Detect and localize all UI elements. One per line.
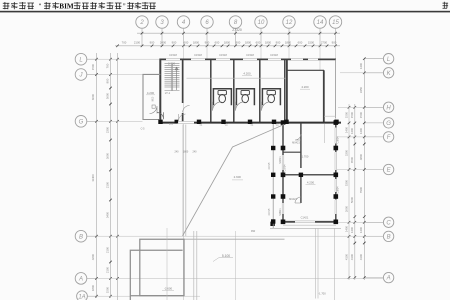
grid bubble 14 (top)	[314, 16, 326, 28]
svg-text:900: 900	[332, 41, 337, 45]
svg-text:2400: 2400	[160, 41, 167, 45]
svg-text:1800: 1800	[193, 41, 200, 45]
big room right wall	[323, 70, 325, 122]
grid leader 14	[319, 28, 321, 46]
svg-text:C0715: C0715	[269, 208, 271, 215]
bathroom walls unit right of partition 259.8	[262, 89, 280, 105]
grid leader 3	[161, 28, 163, 46]
unit door arc from partition	[262, 102, 271, 111]
veranda line west of wing	[272, 124, 274, 228]
column Z2 at (286.5,G)	[284, 120, 288, 124]
svg-text:3300: 3300	[345, 149, 349, 156]
svg-text:4.200: 4.200	[301, 85, 309, 89]
toilet fixture	[267, 90, 275, 94]
svg-text:2100: 2100	[106, 181, 110, 188]
grid row F leader into wing	[336, 136, 364, 138]
grid row A horizontal	[97, 277, 385, 279]
grid leader 6	[206, 28, 208, 46]
grid bubble 1/A (left, partial)	[77, 291, 88, 300]
svg-text:1400: 1400	[350, 127, 354, 134]
grid leader G left	[87, 120, 97, 122]
svg-text:1.700: 1.700	[302, 154, 309, 158]
grid line 4 vertical	[183, 46, 185, 300]
double wall lines x~195	[193, 231, 195, 300]
svg-text:M0921: M0921	[279, 208, 282, 216]
veranda column y=221.5	[271, 219, 275, 223]
svg-text:1400: 1400	[345, 126, 349, 133]
upper block right balcony edge	[335, 59, 337, 118]
wing small wall segment	[283, 151, 301, 153]
top dimension line detail row	[115, 45, 340, 47]
svg-text:C0904: C0904	[337, 136, 340, 144]
svg-text:C1518: C1518	[169, 53, 177, 57]
grid row B horizontal	[97, 235, 385, 237]
svg-text:4.200: 4.200	[147, 91, 155, 95]
svg-text:27320: 27320	[232, 28, 242, 32]
grid bubble 6 (top)	[201, 16, 213, 28]
svg-text:1800: 1800	[91, 284, 95, 291]
grid line 12 stub	[288, 46, 290, 59]
svg-text:5300: 5300	[345, 179, 349, 186]
svg-text:14: 14	[317, 20, 324, 26]
svg-text:4100: 4100	[350, 253, 354, 260]
grid leader A right	[364, 277, 383, 279]
unit door arc from partition	[236, 102, 245, 111]
column Z2 at (223.5,G)	[221, 120, 225, 124]
grid row L leader into plan	[97, 58, 160, 60]
svg-text:2100: 2100	[106, 266, 110, 273]
wing column partition/E	[299, 173, 303, 177]
svg-text:2300: 2300	[106, 126, 110, 133]
unit partition walls	[210, 59, 212, 122]
rect B bottom line	[130, 295, 184, 297]
svg-text:1400: 1400	[359, 62, 363, 69]
svg-text:700: 700	[106, 63, 110, 68]
stair door arc into corridor	[183, 106, 190, 113]
svg-text:5.100: 5.100	[222, 254, 230, 258]
wing bottom window C1421	[295, 221, 315, 224]
svg-text:240: 240	[193, 150, 198, 153]
left vertical dimension line 1	[96, 53, 98, 298]
svg-text:-1.700: -1.700	[318, 292, 326, 296]
stairwell right wall	[182, 59, 184, 104]
toilet fixture	[241, 90, 249, 94]
grid row H leader	[338, 106, 364, 108]
svg-text:11400: 11400	[91, 174, 95, 182]
grid leader 12	[288, 28, 290, 46]
wing column right y=148	[334, 146, 339, 151]
wing wall windows (left)	[282, 155, 284, 170]
svg-text:240: 240	[175, 150, 180, 153]
svg-text:5600: 5600	[106, 92, 110, 99]
grid leader 10	[260, 28, 262, 46]
grid bubble 4 (top)	[177, 16, 189, 28]
svg-text:4.200: 4.200	[243, 72, 251, 76]
grid leader G right	[364, 122, 383, 124]
svg-text:1800: 1800	[285, 41, 292, 45]
svg-text:900: 900	[276, 41, 281, 45]
grid leader A left	[87, 277, 97, 279]
grid leader B left	[87, 235, 97, 237]
svg-text:600: 600	[184, 41, 189, 45]
grid leader F right	[364, 136, 383, 138]
grid leader L right	[364, 58, 383, 60]
svg-text:800: 800	[106, 78, 110, 83]
grid bubble 15 (top)	[329, 16, 341, 28]
svg-text:600: 600	[256, 41, 261, 45]
grid bubble A (right)	[383, 272, 393, 282]
grid row 1/A horizontal	[97, 295, 201, 297]
grid line 8 vertical lower	[235, 231, 237, 300]
wing interior floor wall (row E)	[283, 174, 336, 176]
grid bubble 2 (top)	[136, 16, 148, 28]
wing bottom wall (row C)	[283, 221, 336, 223]
wing interior partition vertical	[300, 123, 302, 168]
porch door arc	[150, 106, 158, 114]
grid row C leader	[336, 221, 364, 223]
grid leader B right	[364, 235, 383, 237]
svg-text:10: 10	[258, 20, 265, 26]
wing column right y=221.8	[334, 220, 339, 225]
big room upper wall	[287, 69, 324, 71]
veranda column y=196.5	[271, 194, 275, 198]
grid line 14 stub	[319, 46, 321, 70]
grid bubble A (left)	[75, 273, 87, 285]
corridor door arc x=191	[179, 114, 186, 121]
svg-text:2.700: 2.700	[168, 62, 175, 66]
wing column left y=122.6	[281, 120, 286, 125]
svg-text:A: A	[386, 276, 391, 282]
svg-text:-JZ: -JZ	[275, 124, 279, 127]
courtyard diagonal roof line	[183, 124, 285, 236]
svg-text:RW: RW	[251, 230, 256, 233]
svg-text:3400: 3400	[106, 211, 110, 218]
svg-text:B: B	[387, 235, 391, 241]
svg-text:M0421: M0421	[289, 198, 297, 201]
grid leader 15	[335, 28, 337, 46]
terrace step rects below wing	[315, 228, 317, 299]
light line right of big room	[324, 115, 336, 117]
stair direction arrow	[175, 67, 178, 90]
grid leader J left	[87, 74, 97, 76]
overall dimension line 27320	[137, 32, 340, 34]
grid bubble C (right)	[383, 217, 393, 227]
svg-text:C1518: C1518	[219, 53, 227, 57]
wing column left y=174.8	[281, 173, 286, 178]
svg-text:G: G	[79, 119, 84, 125]
svg-text:700: 700	[122, 41, 127, 45]
svg-text:6500: 6500	[350, 156, 354, 163]
left vertical dimension line 3	[117, 53, 119, 300]
grid bubble 12 (top)	[283, 16, 295, 28]
big room left wall	[286, 59, 288, 122]
grid leader H right	[364, 106, 383, 108]
lower terrace rectangle B offset	[130, 250, 182, 300]
grid leader K right	[364, 72, 383, 74]
svg-text:1500: 1500	[345, 111, 349, 118]
svg-text:-JZ: -JZ	[250, 124, 254, 127]
grid bubble 8 (top)	[229, 16, 241, 28]
svg-text:900: 900	[205, 41, 210, 45]
stair landing edge	[165, 90, 180, 92]
lower terrace rectangle A	[140, 239, 184, 295]
porch inner door mark	[152, 105, 155, 108]
svg-text:900: 900	[236, 41, 241, 45]
toilet fixture	[218, 90, 226, 94]
grid bubble J (left)	[75, 69, 87, 81]
column Z2 at (274,G)	[272, 120, 276, 124]
left vertical dimension line 2	[110, 53, 112, 298]
svg-text:600: 600	[215, 41, 220, 45]
svg-text:1800: 1800	[245, 41, 252, 45]
svg-text:900: 900	[150, 41, 155, 45]
unit door arc from partition	[213, 102, 222, 111]
courtyard walkway double line	[182, 125, 184, 237]
svg-text:C-5: C-5	[141, 127, 146, 130]
wing column right y=196.5	[334, 194, 339, 199]
svg-text:LT-1: LT-1	[165, 91, 171, 95]
grid leader C right	[364, 221, 383, 223]
svg-text:C: C	[386, 220, 391, 226]
svg-text:L: L	[387, 57, 390, 63]
heavy top rule	[0, 11, 450, 13]
svg-text:H: H	[386, 105, 391, 111]
grid line 10 stub	[260, 46, 262, 59]
svg-text:2.600: 2.600	[234, 175, 242, 179]
wing column left y=148	[281, 146, 286, 151]
svg-text:1500: 1500	[359, 111, 363, 118]
grid row G leader into plan	[97, 120, 143, 122]
wing column right y=174.8	[334, 173, 339, 178]
grid bubble E (right)	[383, 164, 393, 174]
grid bubble H (right)	[383, 102, 393, 112]
grid bubble L (right)	[383, 54, 393, 64]
wing lower terrace lines	[283, 224, 336, 226]
grid bubble K (right)	[383, 68, 393, 78]
svg-text:6000: 6000	[91, 93, 95, 100]
svg-text:M0421: M0421	[279, 156, 282, 164]
wing column left y=221.8	[281, 220, 286, 225]
svg-text:7900: 7900	[359, 186, 363, 193]
svg-text:3600: 3600	[106, 152, 110, 159]
svg-text:4.200: 4.200	[307, 181, 315, 185]
stair flight divider	[170, 64, 172, 91]
svg-text:2100: 2100	[134, 41, 141, 45]
svg-text:C1421: C1421	[301, 215, 309, 219]
column Z2 at (336.5,G)	[334, 120, 338, 124]
canopy column left of wing	[270, 222, 274, 226]
wing column left y=196.5	[281, 194, 286, 199]
stair treads	[165, 64, 180, 87]
corridor faint wall line	[187, 77, 287, 79]
entry porch outline	[143, 74, 160, 119]
svg-text:1400: 1400	[359, 127, 363, 134]
svg-text:2100: 2100	[106, 246, 110, 253]
svg-text:1400: 1400	[345, 225, 349, 232]
grid row J leader into plan	[97, 74, 160, 76]
svg-text:2600: 2600	[345, 205, 349, 212]
column Z2 at (160.5,G)	[158, 120, 162, 124]
grid bubble L (left)	[75, 53, 87, 65]
svg-text:1A: 1A	[78, 294, 85, 300]
wing left wall	[282, 123, 284, 223]
svg-text:M0421: M0421	[292, 142, 300, 145]
svg-text:C0704: C0704	[284, 164, 287, 172]
svg-text:C1518: C1518	[194, 53, 202, 57]
svg-text:1500: 1500	[91, 63, 95, 70]
svg-text:4100: 4100	[359, 253, 363, 260]
grid leader 8	[235, 28, 237, 46]
svg-text:15: 15	[332, 20, 339, 26]
grid leader L left	[87, 58, 97, 60]
svg-text:1500: 1500	[308, 41, 315, 45]
svg-text:BIM: BIM	[59, 2, 74, 10]
page-corner glyph top right	[443, 2, 449, 8]
svg-text:1800: 1800	[224, 41, 231, 45]
grid bubble B (left)	[75, 230, 87, 242]
grid bubble G (left)	[75, 116, 87, 128]
veranda column y=174.8	[271, 173, 275, 177]
svg-text:1500: 1500	[106, 286, 110, 293]
upper block top wall (row L)	[160, 58, 337, 60]
svg-text:C1518: C1518	[270, 53, 278, 57]
veranda column y=148	[271, 146, 275, 150]
wing door arcs	[295, 134, 301, 140]
bathroom walls unit right of partition 210.8	[213, 89, 231, 105]
svg-text:5000: 5000	[350, 196, 354, 203]
svg-text:L: L	[79, 57, 82, 63]
svg-text:-JZ: -JZ	[199, 124, 203, 127]
light partition below big room right wall	[324, 124, 326, 143]
svg-text:C1518: C1518	[246, 53, 254, 57]
svg-text:1400: 1400	[359, 226, 363, 233]
grid bubble G (right)	[383, 118, 393, 128]
svg-text:1500: 1500	[350, 111, 354, 118]
svg-text:3450: 3450	[359, 86, 363, 93]
grid leader 4	[183, 28, 185, 46]
right vertical dimension lines	[348, 104, 350, 280]
svg-text:2700: 2700	[321, 41, 328, 45]
svg-text:-2.600: -2.600	[164, 286, 173, 290]
wing right wall	[335, 123, 337, 223]
bathroom walls unit right of partition 233.8	[236, 89, 254, 105]
grid bubble 3 (top)	[156, 16, 168, 28]
svg-text:4800: 4800	[359, 153, 363, 160]
column Z2 at (199,G)	[197, 120, 201, 124]
svg-text:G: G	[386, 121, 391, 127]
stairwell left wall	[159, 59, 161, 124]
svg-text:C0904: C0904	[337, 186, 340, 194]
grid bubble F (right)	[383, 132, 393, 142]
svg-text:4200: 4200	[91, 253, 95, 260]
svg-text:1800: 1800	[183, 150, 189, 153]
grid line 15 vertical	[335, 46, 337, 120]
grid row E leader into wing	[336, 169, 364, 171]
column at stair wall end	[175, 120, 179, 124]
svg-text:B: B	[79, 234, 83, 240]
wing wall windows (right)	[335, 128, 337, 144]
svg-text:2: 2	[139, 20, 144, 26]
stair exit door arc to courtyard	[157, 112, 164, 119]
grid bubble 10 (top)	[255, 16, 267, 28]
main bottom wall (row G)	[160, 122, 342, 124]
svg-text:1800: 1800	[265, 41, 272, 45]
column Z2 at (250,G)	[248, 120, 252, 124]
svg-text:-JZ: -JZ	[224, 124, 228, 127]
grid leader 2	[141, 28, 143, 46]
svg-text:A: A	[78, 277, 83, 283]
svg-text:M10: M10	[152, 96, 154, 101]
inner vertical light line	[166, 228, 168, 300]
grid row K leader	[340, 72, 364, 74]
grid bubble B (right)	[383, 231, 393, 241]
wing column right y=122.6	[334, 120, 339, 125]
svg-text:12: 12	[286, 20, 293, 26]
grid leader E right	[364, 169, 383, 171]
svg-text:600: 600	[298, 41, 303, 45]
header title pseudo-CJK text	[3, 2, 10, 9]
svg-text:1400: 1400	[350, 226, 354, 233]
svg-text:C0715: C0715	[269, 162, 271, 169]
svg-text:4100: 4100	[345, 253, 349, 260]
svg-text:F: F	[387, 135, 391, 141]
grid line 6 stub	[206, 46, 208, 59]
svg-text:900: 900	[172, 41, 177, 45]
courtyard bottom edge merged with terrace top	[184, 238, 285, 240]
